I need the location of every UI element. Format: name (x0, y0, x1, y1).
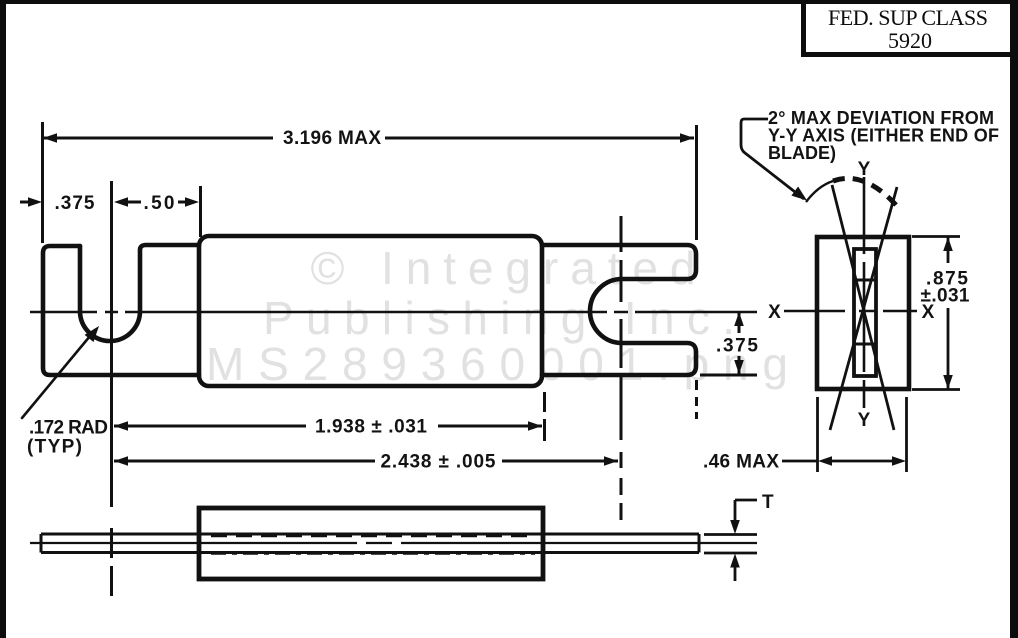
svg-text:X: X (768, 302, 781, 323)
svg-text:3.196 MAX: 3.196 MAX (283, 128, 381, 149)
svg-text:Y: Y (858, 159, 871, 180)
svg-text:Y: Y (858, 410, 871, 431)
svg-text:BLADE): BLADE) (768, 143, 836, 163)
svg-text:.375: .375 (55, 193, 95, 214)
svg-text:.46 MAX: .46 MAX (703, 452, 779, 473)
svg-text:.172 RAD: .172 RAD (29, 418, 108, 439)
svg-text:T: T (762, 492, 774, 513)
svg-text:FED. SUP CLASS: FED. SUP CLASS (828, 5, 988, 30)
svg-text:5920: 5920 (888, 28, 932, 53)
svg-text:1.938 ± .031: 1.938 ± .031 (315, 417, 427, 438)
svg-text:(TYP): (TYP) (27, 437, 82, 458)
svg-text:.50: .50 (144, 193, 175, 214)
svg-text:2.438 ± .005: 2.438 ± .005 (381, 452, 496, 473)
svg-text:.375: .375 (716, 336, 758, 357)
svg-text:±.031: ±.031 (921, 286, 970, 307)
